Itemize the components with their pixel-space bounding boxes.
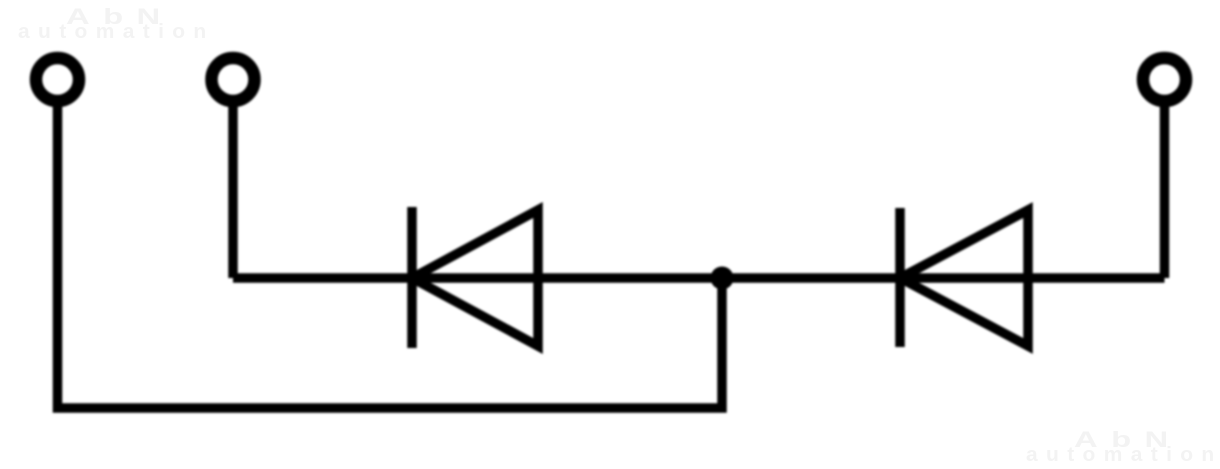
diode D1 cathode bar [407, 207, 417, 348]
junction dot at bus/bottom-loop node [711, 267, 734, 290]
wire: horizontal bus from terminal-2 corner to right corner [233, 273, 1165, 283]
wire: terminal 2 down to horizontal bus [228, 99, 238, 278]
watermark bottom-right "AbN automation" [1074, 429, 1182, 451]
terminal circle 1 (top-left) [36, 58, 79, 101]
wire: terminal 1 down, along bottom, up to junction [58, 99, 723, 408]
terminal circle 2 [212, 58, 255, 101]
diode D2 triangle (anode, pointing left) [900, 210, 1028, 346]
diode D1 triangle (anode, pointing left) [412, 210, 538, 346]
watermark top-left "AbN automation" [66, 6, 174, 28]
diode D2 cathode bar [895, 208, 905, 347]
wire: right corner up to terminal 3 [1160, 99, 1170, 278]
terminal circle 3 (top-right) [1143, 58, 1186, 101]
